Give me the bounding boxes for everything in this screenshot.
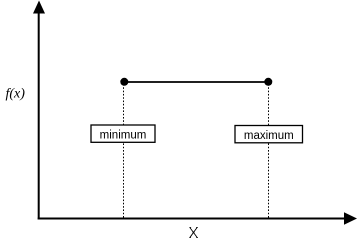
dotted line at maximum xyxy=(268,84,270,218)
svg-text:minimum: minimum xyxy=(100,130,147,142)
uniform density top line xyxy=(124,81,268,83)
svg-text:maximum: maximum xyxy=(244,130,294,142)
x-axis arrowhead xyxy=(344,212,357,224)
x-axis label X (drawn: thin serif-style strokes) xyxy=(189,228,198,238)
x-axis line xyxy=(38,218,346,220)
right endpoint dot xyxy=(264,78,272,86)
svg-text:f(x): f(x) xyxy=(6,86,26,101)
minimum label box xyxy=(91,125,155,142)
y-axis line xyxy=(38,12,40,220)
left endpoint dot xyxy=(120,78,128,86)
y-axis arrowhead xyxy=(33,1,45,14)
maximum label box xyxy=(235,126,303,143)
dotted line at minimum xyxy=(123,84,125,218)
